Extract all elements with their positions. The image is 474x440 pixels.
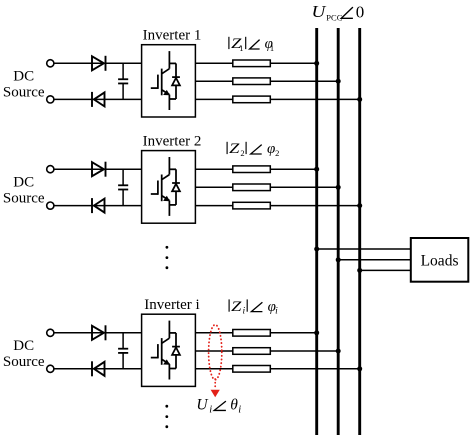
svg-text:Source: Source <box>3 84 45 100</box>
svg-text:DC: DC <box>13 338 34 354</box>
junction: inverter 1 phase b on bus <box>336 79 341 84</box>
freewheeling diode (inside inverter 1) <box>169 63 180 99</box>
wire: impedance Zib to bus b <box>270 350 338 352</box>
wire: inverter i phase c output to impedance <box>195 368 232 370</box>
wire: impedance Z2b to bus b <box>270 186 338 188</box>
terminal - (DC source 1 negative) <box>47 96 54 103</box>
wire: bus c to Loads <box>360 269 411 271</box>
wire: inverter i phase b output to impedance <box>195 350 232 352</box>
wire: inverter 1 phase a output to impedance <box>195 62 232 64</box>
svg-text:i: i <box>209 404 212 415</box>
wire: impedance Z1a to bus a <box>270 62 316 64</box>
freewheeling diode (inside inverter 2) <box>169 169 180 205</box>
impedance Z2c (rect) <box>233 202 270 209</box>
diode D2b (bottom input, pointing left) <box>92 198 105 213</box>
inverter Ui box <box>142 314 196 386</box>
diode Dib (bottom input, pointing left) <box>92 361 105 376</box>
svg-text:Loads: Loads <box>421 253 459 270</box>
label: |Z2| angle phi2 <box>227 141 279 158</box>
junction: inverter 2 phase a on bus <box>314 167 319 172</box>
ellipsis dots (more inverters, bottom) <box>165 405 168 428</box>
svg-text:0: 0 <box>356 2 365 21</box>
svg-text:PCC: PCC <box>326 12 342 22</box>
impedance Z1a (rect) <box>233 60 270 67</box>
ellipsis dots (more inverters, middle) <box>166 246 169 269</box>
capacitor C1 (DC link) <box>118 63 128 99</box>
wire: inverter 2 phase c output to impedance <box>195 205 232 207</box>
svg-text:φ: φ <box>267 141 275 157</box>
red dashed arrow to U_i label <box>214 379 216 387</box>
impedance Zic (rect) <box>233 366 270 373</box>
wire: inverter 1 phase b output to impedance <box>195 80 232 82</box>
svg-text:θ: θ <box>230 396 238 413</box>
label: |Zi| angle phii <box>229 299 278 317</box>
junction: inverter 2 phase c on bus <box>357 203 362 208</box>
terminal + (DC source 1 positive) <box>47 60 54 67</box>
wire: impedance Z2c to bus c <box>270 205 359 207</box>
bus line b (PCC) <box>337 28 340 435</box>
wire: inverter 1 phase c output to impedance <box>195 98 232 100</box>
svg-text:DC: DC <box>13 68 34 84</box>
svg-text:U: U <box>312 2 328 21</box>
wire: DC+ terminal to inverter 1 input <box>54 62 142 64</box>
capacitor C2 (DC link) <box>118 169 128 205</box>
IGBT Qi (inside inverter i) <box>151 321 170 380</box>
impedance Z2a (rect) <box>233 166 270 173</box>
bus line a (PCC) <box>315 28 318 435</box>
wire: impedance Zia to bus a <box>270 332 316 334</box>
svg-text:Z: Z <box>229 141 240 157</box>
svg-text:2: 2 <box>240 148 244 158</box>
svg-text:i: i <box>243 307 246 317</box>
junction: loads tap on bus a <box>314 247 319 252</box>
impedance Zib (rect) <box>233 348 270 355</box>
junction: inverter i phase a on bus <box>314 330 319 335</box>
junction: inverter 2 phase b on bus <box>336 185 341 190</box>
wire: DC- terminal to inverter 2 input <box>54 205 142 207</box>
junction: inverter 1 phase c on bus <box>357 97 362 102</box>
IGBT Q2 (inside inverter 2) <box>151 157 170 216</box>
svg-text:i: i <box>238 404 241 415</box>
junction: loads tap on bus c <box>357 268 362 273</box>
wire: DC- terminal to inverter i input <box>54 368 142 370</box>
svg-text:1: 1 <box>270 43 274 53</box>
impedance Zia (rect) <box>233 330 270 337</box>
svg-text:U: U <box>196 396 209 413</box>
freewheeling diode (inside inverter i) <box>169 333 180 369</box>
wire: bus b to Loads <box>338 259 411 261</box>
wire: impedance Zic to bus c <box>270 368 359 370</box>
wire: impedance Z2a to bus a <box>270 168 316 170</box>
terminal - (DC source 2 negative) <box>47 202 54 209</box>
inverter U2 box <box>142 151 196 224</box>
Loads box <box>411 238 469 282</box>
svg-text:Inverter i: Inverter i <box>144 297 199 313</box>
IGBT Q1 (inside inverter 1) <box>151 51 170 110</box>
diode D1a (top input, pointing right) <box>92 56 106 71</box>
wire: impedance Z1b to bus b <box>270 80 338 82</box>
svg-text:Source: Source <box>3 354 45 370</box>
wire: DC+ terminal to inverter i input <box>54 332 142 334</box>
svg-text:i: i <box>275 307 278 317</box>
svg-text:1: 1 <box>239 43 243 53</box>
junction: loads tap on bus b <box>336 257 341 262</box>
diode D2a (top input, pointing right) <box>92 162 106 177</box>
diode D1b (bottom input, pointing left) <box>92 92 105 107</box>
diode Dia (top input, pointing right) <box>92 325 106 340</box>
wire: inverter 2 phase b output to impedance <box>195 186 232 188</box>
junction: inverter i phase b on bus <box>336 349 341 354</box>
wire: inverter 2 phase a output to impedance <box>195 168 232 170</box>
impedance Z1b (rect) <box>233 78 270 85</box>
wire: DC- terminal to inverter 1 input <box>54 98 142 100</box>
wire: DC+ terminal to inverter 2 input <box>54 168 142 170</box>
inverter U1 box <box>142 45 196 117</box>
label: |Z1| angle phi1 <box>229 36 274 53</box>
bus line c (PCC) <box>358 28 361 435</box>
svg-text:Inverter 1: Inverter 1 <box>143 28 202 44</box>
terminal - (DC source i negative) <box>47 365 54 372</box>
junction: inverter 1 phase a on bus <box>314 61 319 66</box>
svg-text:Source: Source <box>3 190 45 206</box>
terminal + (DC source i positive) <box>47 329 54 336</box>
svg-text:DC: DC <box>13 174 34 190</box>
terminal + (DC source 2 positive) <box>47 166 54 173</box>
wire: bus a to Loads <box>317 248 411 250</box>
svg-text:Inverter 2: Inverter 2 <box>143 134 202 150</box>
svg-text:2: 2 <box>275 148 279 158</box>
junction: inverter i phase c on bus <box>357 366 362 371</box>
svg-text:Z: Z <box>231 299 242 315</box>
impedance Z1c (rect) <box>233 96 270 103</box>
capacitor Ci (DC link) <box>118 333 128 369</box>
red dashed ellipse (voltage measurement on inverter i output) <box>209 325 222 380</box>
wire: inverter i phase a output to impedance <box>195 332 232 334</box>
wire: impedance Z1c to bus c <box>270 98 359 100</box>
impedance Z2b (rect) <box>233 184 270 191</box>
